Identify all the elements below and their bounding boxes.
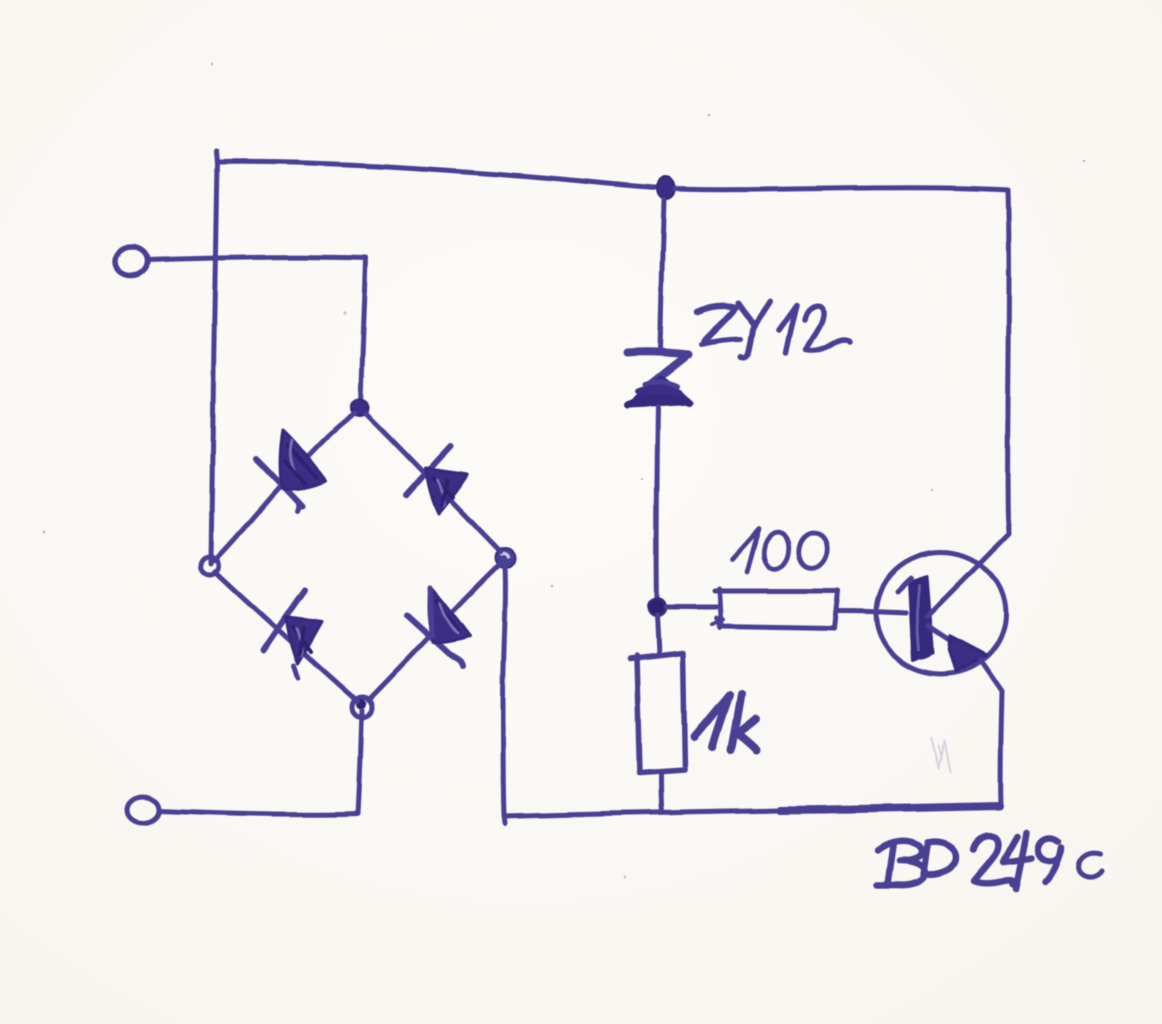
bridge edge bottom-left [215,572,357,701]
wire bottom-left terminal to bridge bottom [159,710,362,815]
bridge edge bottom-right [368,565,499,700]
bridge node top [351,400,369,416]
bridge node right [495,548,515,568]
terminal AC input top-left [115,247,147,275]
wire resistor 100 to transistor base [838,611,906,613]
diode D3 bottom-left [263,590,322,678]
wire bottom rail [504,806,1000,823]
transistor collector line [927,534,1009,617]
wire bridge right node down [503,568,506,814]
wire junction to resistor 1k [657,615,659,654]
terminal AC input bottom-left [127,797,159,823]
node top junction [657,177,675,199]
wire top rail right segment [675,188,1008,190]
transistor Q1 BD249c circle [876,552,1006,674]
wire right vertical (collector rail) [1008,190,1009,533]
diode D4 bottom-right [407,586,470,666]
wire zener to base junction [657,407,658,600]
bridge edge top-right [366,414,500,552]
wire left vertical to bridge left node [211,162,217,564]
label ZY12 [697,301,850,358]
wire resistor 1k to bottom rail [661,773,662,811]
bridge node bottom [352,697,372,717]
wire junction to resistor 100 [666,605,716,610]
bridge edge top-left [214,413,355,561]
wire top rail left segment [216,151,663,188]
resistor 100 [712,589,838,629]
label BD249c [877,832,1102,889]
diode D2 top-right [406,446,467,513]
zener diode ZY12 [627,351,692,406]
wire junction to zener [660,199,664,349]
wire emitter down to bottom rail [1001,693,1002,806]
wire from top-left terminal to bridge top [147,257,366,406]
pencil smudge marks [931,738,950,772]
bridge node left [201,557,219,575]
diode D1 top-left [256,430,326,512]
label 100 [733,529,830,572]
label 1k [694,694,757,750]
node base junction [649,599,666,616]
transistor emitter line [928,626,1002,692]
resistor 1k [630,653,685,773]
transistor base bar [897,576,933,660]
